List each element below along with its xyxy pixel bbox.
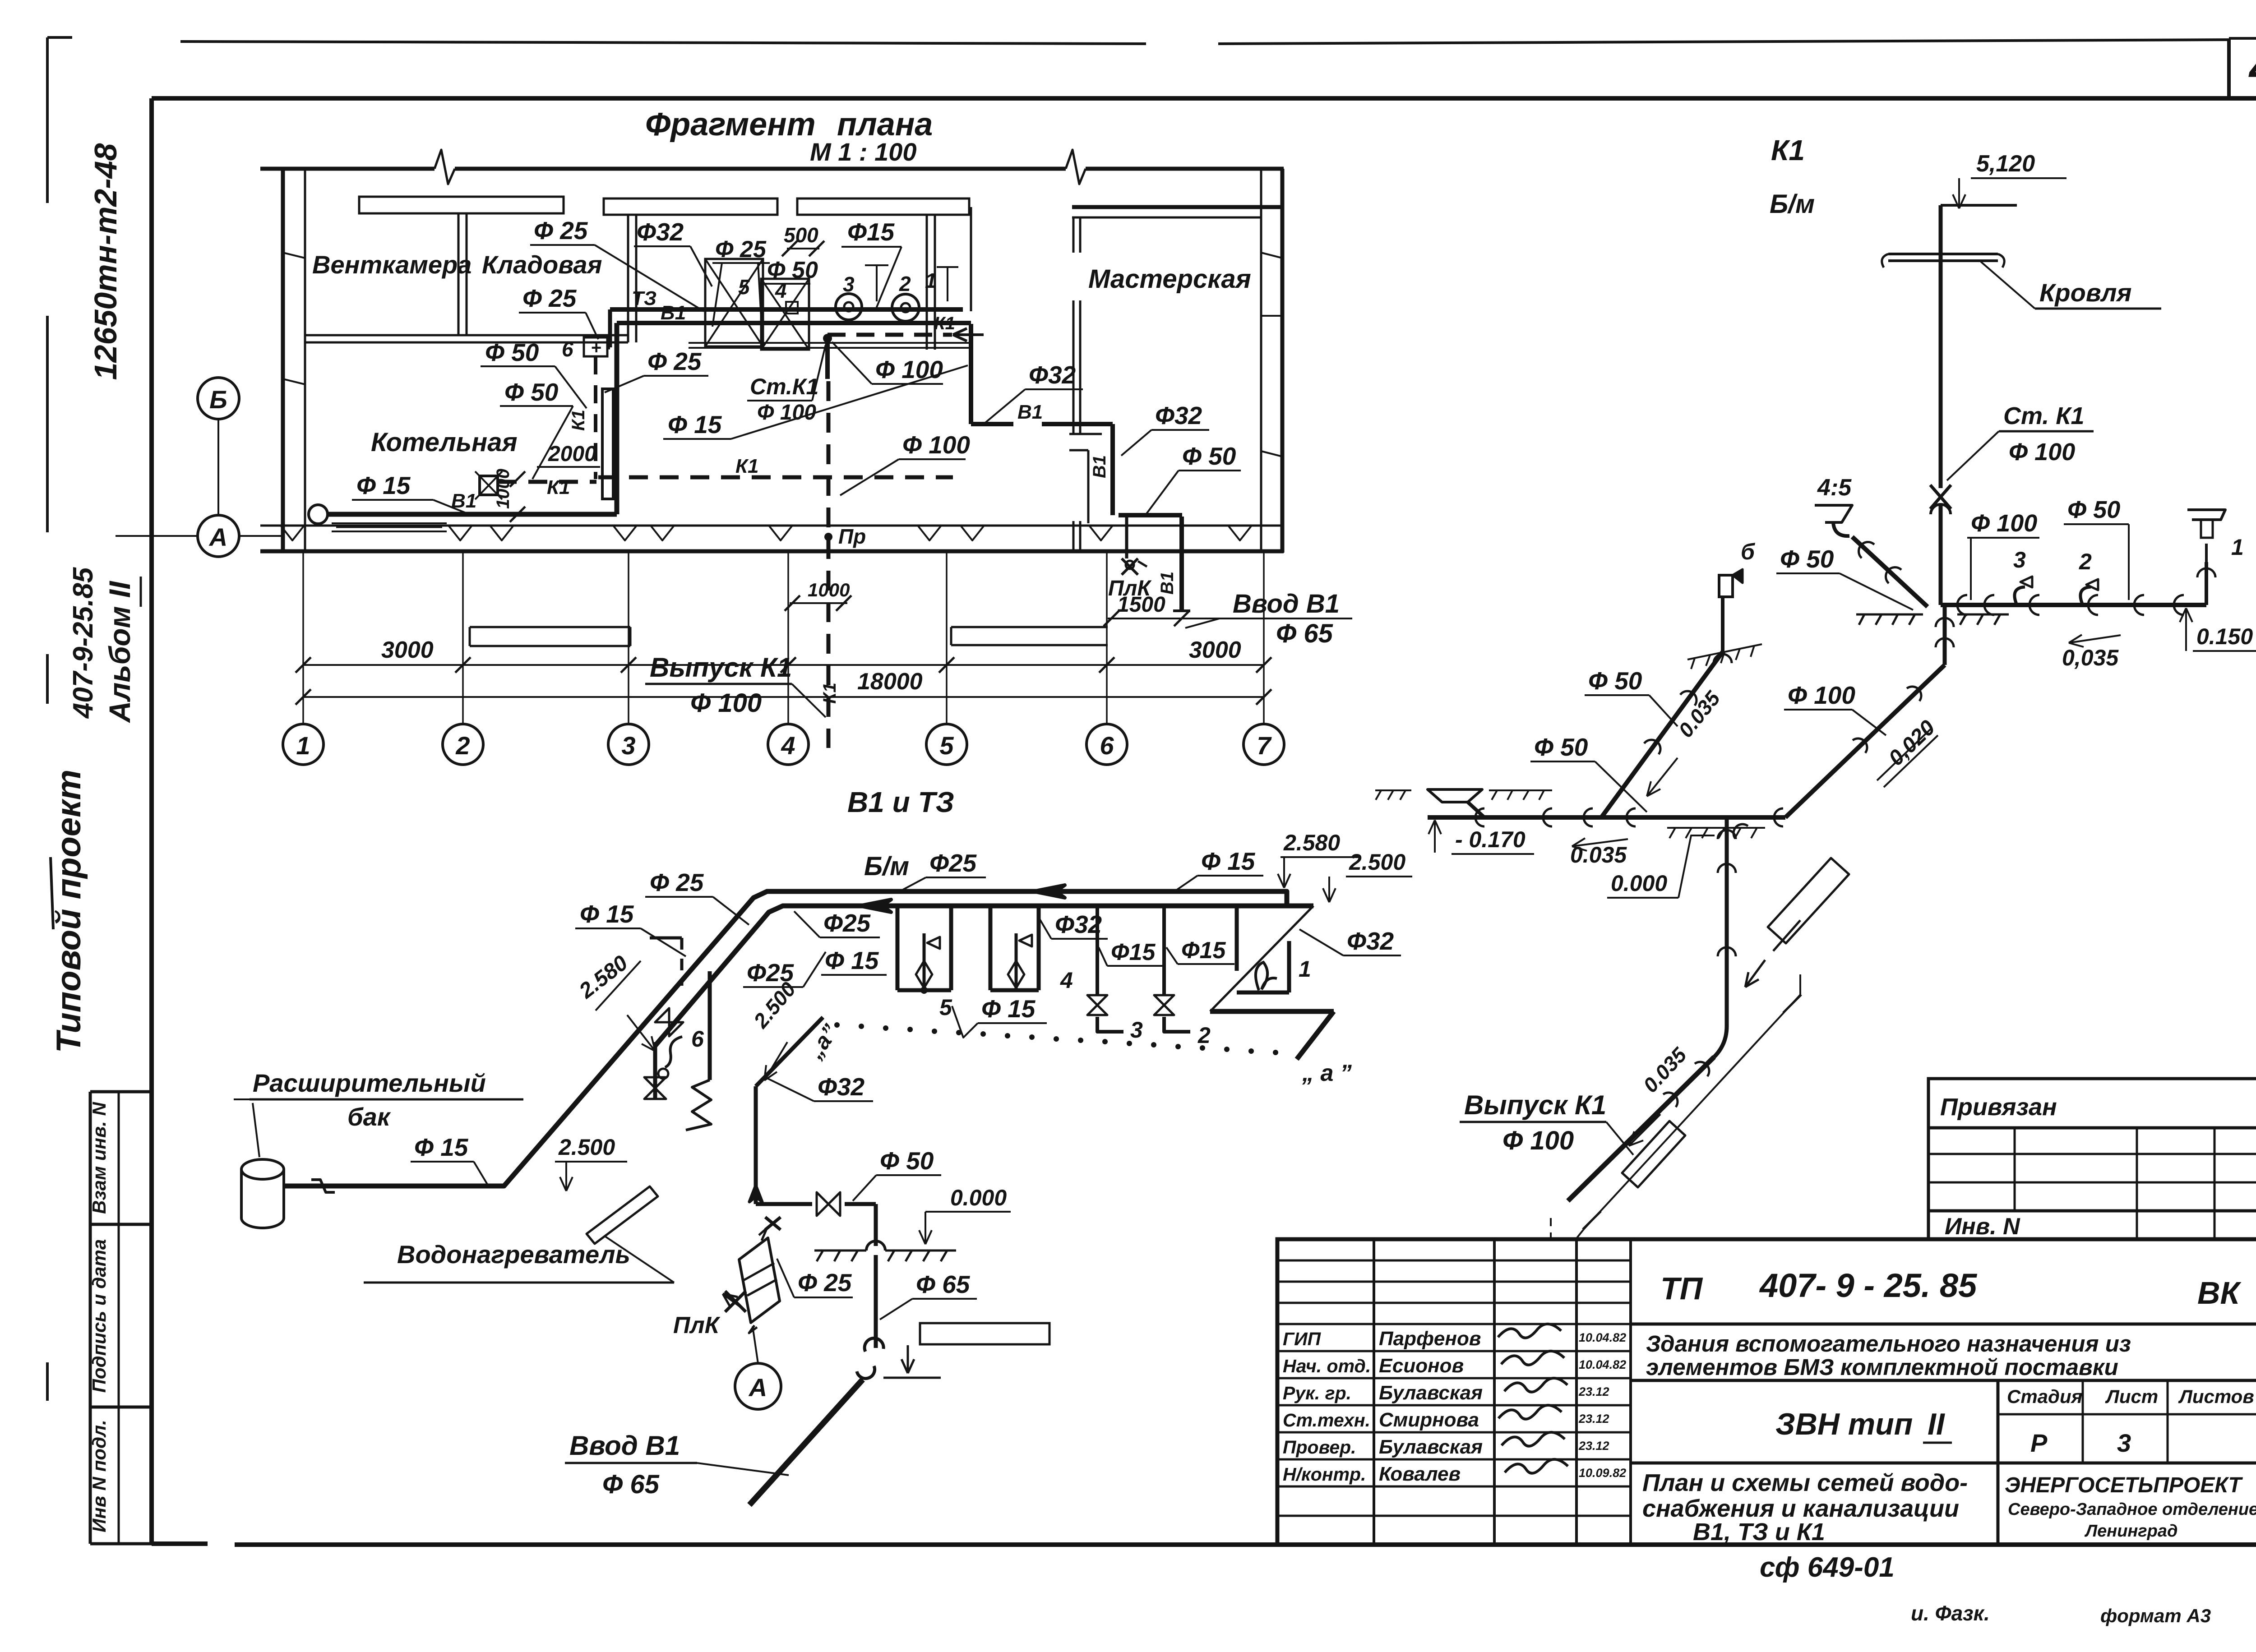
dim row 1 (303, 664, 1264, 666)
svg-text:2: 2 (2079, 549, 2092, 574)
svg-text:Ф32: Ф32 (1347, 927, 1394, 955)
svg-text:Н/контр.: Н/контр. (1283, 1464, 1366, 1485)
roof line (1888, 253, 1998, 255)
title block ZVN cell (1631, 1462, 2256, 1465)
svg-text:Ф32: Ф32 (1029, 361, 1076, 389)
plan B1 to masterskaya (969, 324, 973, 424)
wall ventkamera-kladovaya (458, 213, 460, 335)
svg-text:ТЗ: ТЗ (632, 287, 656, 309)
appliance 4 loop (989, 908, 993, 990)
svg-text:0,035: 0,035 (2062, 645, 2119, 670)
floor drain square (480, 476, 498, 495)
svg-text:6: 6 (562, 337, 573, 361)
boiler plus box (584, 337, 607, 356)
svg-text:Типовой проект: Типовой проект (50, 770, 88, 1053)
stack below floor (1943, 605, 1947, 665)
svg-text:3000: 3000 (381, 637, 434, 663)
svg-text:Здания вспомогательного: Здания вспомогательного назначения из (1646, 1331, 2131, 1357)
svg-text:снабжения и канализации: снабжения и канализации (1642, 1495, 1959, 1522)
boiler unit 6 (708, 971, 712, 1080)
K1 stack vertical (1939, 205, 1943, 488)
svg-text:Ф 25: Ф 25 (522, 284, 577, 312)
svg-text:Ф 25: Ф 25 (715, 236, 767, 263)
svg-text:В1, ТЗ и К1: В1, ТЗ и К1 (1693, 1518, 1825, 1546)
page number box 47 (2227, 40, 2231, 97)
svg-text:2: 2 (899, 272, 911, 295)
svg-text:4: 4 (781, 731, 795, 760)
svg-text:В1 и ТЗ: В1 и ТЗ (847, 786, 954, 818)
funnel branch diagonal (1852, 537, 1928, 607)
plan top cut line (260, 167, 435, 171)
B1 pipe top (655, 906, 1313, 1046)
svg-text:ГИП: ГИП (1283, 1329, 1322, 1349)
svg-text:500: 500 (784, 223, 818, 247)
svg-text:Кровля: Кровля (2039, 278, 2131, 307)
svg-text:Ф 100: Ф 100 (690, 688, 762, 718)
svg-text:3: 3 (2117, 1429, 2131, 1457)
svg-text:Ввод В1: Ввод В1 (1233, 589, 1340, 618)
svg-text:1: 1 (2231, 535, 2244, 560)
PlK tap symbol (725, 1291, 746, 1312)
stadia list listov header (1998, 1413, 2256, 1416)
svg-text:М 1 : 100: М 1 : 100 (810, 138, 917, 166)
svg-text:Ф 65: Ф 65 (602, 1470, 660, 1499)
svg-text:Ст. К1: Ст. К1 (2003, 402, 2085, 429)
indoor sewer line K1 (1941, 603, 2206, 607)
svg-text:Ф 100: Ф 100 (1502, 1126, 1574, 1155)
plan WC pipes T3 B1 (610, 307, 963, 312)
svg-text:Ф 65: Ф 65 (1276, 619, 1333, 648)
counter line under fixtures (689, 342, 969, 344)
title block rows left part (1277, 1260, 1631, 1262)
svg-text:Ленинград: Ленинград (2084, 1522, 2177, 1541)
title block columns left part (1373, 1239, 1375, 1545)
svg-text:Ф 100: Ф 100 (2009, 438, 2075, 466)
T3 flow arrow (1033, 885, 1065, 898)
B1 left arrow (860, 900, 891, 912)
svg-text:+: + (591, 338, 601, 358)
svg-text:А: А (748, 1373, 767, 1402)
svg-text:12650тн-т2-48: 12650тн-т2-48 (88, 143, 123, 380)
svg-text:4:5: 4:5 (1817, 475, 1852, 501)
expansion tank (241, 1159, 284, 1179)
svg-text:2.500: 2.500 (1349, 849, 1405, 875)
svg-text:Подпись и дата: Подпись и дата (88, 1239, 110, 1393)
bench along bottom wall (332, 522, 447, 524)
plan top pilaster panels (359, 197, 564, 213)
pipe K1 dashed boiler room (498, 480, 596, 484)
masterskaya top wall (1072, 205, 1284, 209)
svg-text:и. Фазк.: и. Фазк. (1911, 1601, 1990, 1625)
svg-text:0.000: 0.000 (950, 1185, 1007, 1210)
long dim line vypusk (1584, 995, 1800, 1229)
svg-text:Провер.: Провер. (1283, 1437, 1356, 1458)
svg-text:Ф 50: Ф 50 (1780, 545, 1834, 573)
svg-text:5: 5 (939, 731, 954, 760)
svg-text:Р: Р (2030, 1429, 2048, 1457)
axis circle А (198, 515, 239, 557)
plan WC K1 dashed with arrow (828, 333, 952, 337)
dim row 2 18000 (303, 696, 1264, 698)
svg-text:4: 4 (1060, 968, 1073, 993)
svg-text:Ф25: Ф25 (929, 849, 977, 877)
svg-text:сф 649-01: сф 649-01 (1760, 1552, 1895, 1583)
svg-text:Ф 100: Ф 100 (902, 431, 970, 459)
floor line indoor (1856, 614, 1923, 616)
svg-text:Взам инв. N: Взам инв. N (88, 1101, 110, 1214)
svg-text:В1: В1 (1090, 455, 1110, 478)
svg-text:6: 6 (691, 1026, 704, 1052)
sheet outer left edge marks (47, 36, 72, 39)
fixture supply stubs (876, 265, 878, 301)
svg-text:плана: плана (837, 106, 933, 143)
B1 drop to vvod (1179, 517, 1184, 611)
sheet top edge line (180, 42, 1146, 44)
svg-text:7: 7 (1257, 731, 1272, 760)
svg-text:ВК: ВК (2197, 1275, 2242, 1311)
svg-text:Б/м: Б/м (864, 852, 909, 881)
svg-text:23.12: 23.12 (1578, 1412, 1609, 1426)
wc left wall (926, 215, 928, 350)
svg-text:б: б (1741, 539, 1756, 564)
svg-text:Ф 25: Ф 25 (534, 217, 588, 245)
appliance 2 drop (1162, 908, 1166, 995)
svg-text:формат А3: формат А3 (2100, 1605, 2211, 1626)
buried main horizontal (1428, 815, 1785, 820)
grid circles 1-7 (283, 724, 324, 765)
pipe tank to boiler (296, 1184, 504, 1188)
svg-text:Ст.К1: Ст.К1 (750, 374, 818, 399)
svg-text:1000: 1000 (493, 469, 513, 509)
plan left wall (281, 169, 285, 551)
svg-text:Парфенов: Парфенов (1379, 1328, 1481, 1350)
svg-text:Ф 15: Ф 15 (356, 471, 411, 499)
svg-text:Ф 50: Ф 50 (2067, 496, 2120, 523)
svg-text:1: 1 (925, 269, 937, 292)
svg-text:5,120: 5,120 (1976, 151, 2035, 177)
K1 buried diagonal F100 0.020 (1785, 665, 1945, 817)
svg-text:Б: Б (209, 385, 227, 414)
svg-text:3: 3 (621, 731, 635, 760)
section dotted line a-a (834, 1022, 840, 1028)
svg-text:Ввод В1: Ввод В1 (569, 1431, 680, 1461)
svg-text:Ф 25: Ф 25 (798, 1269, 852, 1297)
svg-text:Лист: Лист (2105, 1386, 2158, 1407)
vypusk K1 diagonal (1568, 1057, 1714, 1201)
svg-text:407-9-25.85: 407-9-25.85 (68, 567, 99, 719)
wall under ventkamera (305, 334, 628, 337)
kladovaya right wall (627, 215, 629, 342)
svg-text:10.09.82: 10.09.82 (1579, 1466, 1626, 1480)
svg-text:Ф 50: Ф 50 (767, 257, 818, 283)
pipe K1 dashed long (598, 475, 953, 480)
buried diagonal F50 up (1601, 652, 1723, 817)
curve to vypusk (1714, 1026, 1727, 1057)
svg-text:Нач. отд.: Нач. отд. (1283, 1356, 1371, 1376)
svg-text:План и схемы сетей водо-: План и схемы сетей водо- (1642, 1469, 1968, 1496)
svg-text:К1: К1 (735, 455, 759, 477)
svg-text:Рук. гр.: Рук. гр. (1283, 1383, 1351, 1403)
svg-text:Альбом II: Альбом II (103, 581, 136, 724)
ground hatch at T (1667, 827, 1765, 829)
svg-text:Б/м: Б/м (1770, 189, 1815, 219)
svg-text:Листов: Листов (2178, 1386, 2254, 1407)
svg-text:Ф32: Ф32 (818, 1073, 865, 1101)
svg-text:Инв. N: Инв. N (1945, 1214, 2020, 1240)
porch lines below plan (951, 626, 1108, 628)
stack rectangle (602, 389, 613, 499)
title block TP number cell (1631, 1323, 2256, 1326)
sink 1 (2205, 562, 2208, 605)
svg-text:1: 1 (1299, 956, 1311, 982)
svg-text:18000: 18000 (857, 669, 923, 695)
svg-text:Ф 100: Ф 100 (1788, 681, 1855, 709)
svg-text:элементов БМЗ комплектной: элементов БМЗ комплектной поставки (1646, 1354, 2118, 1380)
reviziya X on stack (1930, 485, 1951, 509)
svg-text:ПлК: ПлК (673, 1312, 721, 1338)
svg-text:47: 47 (2248, 41, 2256, 94)
svg-text:В1: В1 (661, 302, 686, 324)
appliance 3 drop (1096, 908, 1099, 995)
svg-text:А: А (208, 523, 227, 551)
svg-text:Ф 15: Ф 15 (1201, 847, 1256, 875)
title block project name (1631, 1379, 2256, 1382)
masterskaya left wall (1069, 433, 1102, 435)
svg-text:К1: К1 (547, 476, 570, 498)
svg-text:23.12: 23.12 (1578, 1385, 1609, 1398)
axis circle Б (198, 378, 239, 419)
svg-text:Выпуск К1: Выпуск К1 (1464, 1090, 1606, 1120)
svg-text:Ф32: Ф32 (1155, 401, 1202, 429)
siphon 3 (2015, 587, 2025, 605)
svg-text:1: 1 (296, 731, 310, 760)
svg-text:II: II (1928, 1407, 1946, 1441)
appliance 1 and Ф32 branch (1235, 906, 1239, 971)
svg-text:Расширительный: Расширительный (253, 1069, 486, 1097)
svg-text:ТП: ТП (1660, 1271, 1703, 1306)
svg-text:5: 5 (939, 995, 952, 1020)
svg-text:Есионов: Есионов (1379, 1355, 1464, 1377)
svg-text:Булавская: Булавская (1379, 1436, 1483, 1458)
svg-text:Мастерская: Мастерская (1088, 264, 1251, 294)
svg-text:К1: К1 (569, 410, 588, 431)
svg-text:2.580: 2.580 (1283, 830, 1340, 855)
vvod B1 diagonal (749, 1380, 863, 1505)
svg-text:0.150: 0.150 (2196, 624, 2253, 649)
svg-text:2.500: 2.500 (558, 1135, 615, 1160)
PlK heat exchanger (765, 1217, 781, 1230)
StK1 stub solid (825, 335, 830, 379)
porch rectangle axon (920, 1323, 1049, 1344)
ground line axon (814, 1250, 866, 1252)
svg-text:Ковалев: Ковалев (1379, 1463, 1461, 1485)
svg-text:6: 6 (1100, 731, 1114, 760)
svg-text:ЗВН тип: ЗВН тип (1775, 1407, 1913, 1441)
PlK drop (1125, 517, 1128, 558)
plan bottom wall (260, 525, 1284, 527)
axis connector lines (217, 420, 219, 515)
svg-text:Ф 15: Ф 15 (580, 900, 634, 928)
svg-text:407- 9 - 25. 85: 407- 9 - 25. 85 (1759, 1267, 1978, 1304)
outfall trapezoid (1428, 789, 1482, 802)
svg-text:Венткамера: Венткамера (312, 250, 472, 279)
svg-text:Пр: Пр (838, 525, 866, 548)
svg-text:К1: К1 (1771, 134, 1805, 166)
svg-text:2: 2 (1197, 1023, 1211, 1048)
appliance 5 loop (896, 908, 900, 990)
svg-text:Водонагреватель: Водонагреватель (397, 1240, 630, 1269)
svg-text:бак: бак (347, 1103, 391, 1131)
drawing frame (152, 96, 2256, 101)
svg-text:Ф25: Ф25 (823, 909, 871, 937)
svg-text:Ф 15: Ф 15 (414, 1133, 469, 1161)
vypusk K1 dashed vertical (827, 381, 831, 748)
vent cross box 4 (761, 279, 809, 350)
pointer parallelogram 2 (1622, 1121, 1685, 1187)
plan right wall (1281, 169, 1285, 553)
svg-text:Котельная: Котельная (371, 428, 518, 457)
svg-text:Ст.техн.: Ст.техн. (1283, 1410, 1370, 1431)
svg-text:23.12: 23.12 (1578, 1439, 1609, 1453)
svg-text:Ф 100: Ф 100 (875, 355, 943, 383)
svg-text:Привязан: Привязан (1940, 1094, 2057, 1121)
svg-text:10.04.82: 10.04.82 (1579, 1358, 1626, 1371)
svg-text:Ф 50: Ф 50 (504, 378, 559, 406)
T junction down from buried main (1725, 817, 1729, 1026)
B1 below ground (874, 1255, 878, 1348)
svg-text:Ф15: Ф15 (1181, 937, 1226, 964)
A axis circle axon (735, 1363, 781, 1409)
svg-text:Инв N подл.: Инв N подл. (88, 1420, 110, 1532)
svg-text:К1: К1 (934, 314, 955, 333)
ground hatches buried (1375, 789, 1411, 791)
svg-text:5: 5 (738, 275, 750, 299)
svg-text:Фрагмент: Фрагмент (645, 106, 816, 143)
svg-text:- 0.170: - 0.170 (1455, 827, 1526, 852)
svg-text:Ф32: Ф32 (637, 218, 684, 246)
svg-text:Ф15: Ф15 (1111, 939, 1156, 965)
B1 to ground run (756, 1202, 812, 1206)
title block outer (1277, 1239, 2256, 1545)
svg-text:Северо-Западное отделение: Северо-Западное отделение (2008, 1500, 2256, 1519)
svg-text:3000: 3000 (1189, 637, 1241, 663)
svg-text:К1: К1 (820, 683, 840, 704)
K1 vertical dashed stack (594, 356, 597, 479)
margin side table (90, 1090, 152, 1094)
T3 main pipe top (284, 891, 1287, 1186)
svg-text:Смирнова: Смирнова (1379, 1409, 1479, 1431)
svg-text:Ф 25: Ф 25 (650, 868, 704, 896)
drop arrow near parallelogram (1745, 960, 1765, 987)
section diagonal a (756, 1017, 823, 1086)
svg-text:Ф 100: Ф 100 (1971, 510, 2037, 537)
B1 riser vertical (754, 1086, 758, 1204)
svg-text:Ф32: Ф32 (1055, 910, 1102, 938)
svg-text:10.04.82: 10.04.82 (1579, 1331, 1626, 1344)
svg-text:Ф 50: Ф 50 (1534, 733, 1588, 761)
svg-text:Ф 50: Ф 50 (485, 338, 539, 366)
svg-text:ЭНЕРГОСЕТЬПРОЕКТ: ЭНЕРГОСЕТЬПРОЕКТ (2005, 1473, 2243, 1497)
wc right wall (970, 207, 972, 311)
svg-text:0.000: 0.000 (1611, 871, 1667, 896)
svg-text:В1: В1 (1017, 401, 1043, 423)
vent cross box 5 (705, 259, 763, 346)
svg-text:Ф 50: Ф 50 (1588, 667, 1642, 695)
wc toilets (836, 294, 862, 320)
siphon 2 (2080, 587, 2091, 605)
svg-text:Ф 15: Ф 15 (668, 411, 722, 438)
svg-text:„ а ”: „ а ” (1302, 1060, 1352, 1086)
svg-text:Ф 15: Ф 15 (825, 946, 879, 974)
pipe T3 riser vertical (615, 323, 619, 514)
svg-text:Булавская: Булавская (1379, 1382, 1483, 1404)
svg-text:Ф 15: Ф 15 (981, 995, 1036, 1023)
svg-text:3: 3 (2013, 547, 2026, 572)
svg-text:3: 3 (843, 272, 855, 296)
svg-text:1000: 1000 (808, 579, 850, 600)
svg-text:Ф 25: Ф 25 (647, 347, 702, 375)
svg-text:3: 3 (1130, 1017, 1143, 1043)
grid lines (302, 553, 304, 724)
vent b assembly (1721, 595, 1724, 652)
svg-text:Кладовая: Кладовая (482, 250, 602, 279)
svg-text:Ф 65: Ф 65 (916, 1270, 971, 1298)
privyazan table (1928, 1079, 2256, 1239)
vodonagrevatel plate (587, 1186, 658, 1244)
svg-text:2000: 2000 (548, 442, 596, 466)
svg-text:В1: В1 (1157, 572, 1177, 595)
svg-text:Выпуск К1: Выпуск К1 (650, 652, 792, 683)
drop arrow right of porch (883, 1377, 941, 1379)
svg-text:Ф 50: Ф 50 (1182, 442, 1236, 470)
pointer parallelogram 1 (1768, 858, 1849, 943)
svg-text:Ф 50: Ф 50 (880, 1147, 934, 1175)
svg-text:Ф15: Ф15 (847, 218, 895, 246)
svg-text:2: 2 (455, 731, 470, 760)
svg-text:Стадия: Стадия (2007, 1386, 2082, 1407)
svg-text:1500: 1500 (1117, 593, 1165, 617)
pipe B1 boiler room (309, 505, 328, 524)
